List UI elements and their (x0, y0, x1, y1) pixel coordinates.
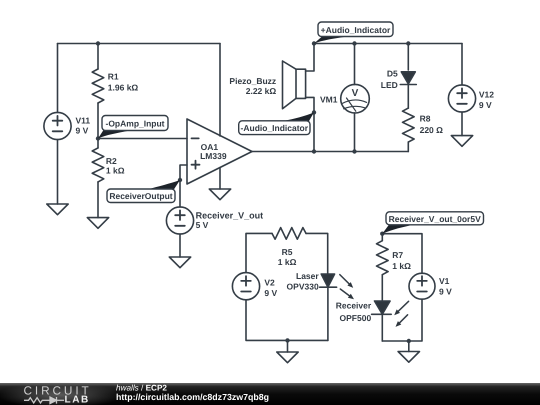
laser arrowhead 1 (347, 282, 353, 288)
resistor R2 (92, 148, 104, 182)
wire R7 to receiver diode (381, 275, 383, 301)
wire D5 to R8 (407, 85, 409, 109)
callout labels (98, 22, 484, 234)
laser emission arrows (340, 275, 350, 285)
wire V2 ground stub (287, 340, 289, 352)
wire V12 bottom (461, 112, 463, 136)
svg-text:D5: D5 (387, 69, 398, 79)
wire receiver diode bottom (381, 314, 383, 341)
node dot R1 top (96, 41, 100, 45)
speaker buzzer body (296, 69, 306, 98)
svg-text:LED: LED (381, 80, 398, 90)
op-amp OA1 LM339 (187, 119, 252, 184)
wire VM1 bottom (354, 113, 356, 152)
wire buzzer bottom terminal (306, 97, 314, 151)
svg-text:OPV330: OPV330 (287, 281, 319, 291)
node dot bus VM1 bottom (352, 149, 356, 153)
svg-text:V1: V1 (439, 276, 450, 286)
ground OA1 (209, 189, 230, 200)
wire buzzer top terminal (306, 44, 314, 72)
node dot buzzer bottom (312, 110, 316, 114)
wire R1 top stub (97, 44, 99, 70)
receiver arrowhead 1 (394, 309, 400, 315)
receiver arrowhead 2 (396, 321, 402, 327)
op-amp plus input glyph (192, 161, 200, 169)
wire OA1 output bus (252, 151, 408, 153)
wire D5 top stub (407, 44, 409, 71)
wire R7 top stub (381, 234, 383, 241)
svg-text:LM339: LM339 (200, 151, 227, 161)
wire R2 bottom stub (97, 182, 99, 218)
wire non-inverting input stub (180, 165, 187, 207)
svg-text:9 V: 9 V (76, 126, 89, 136)
svg-text:-Audio_Indicator: -Audio_Indicator (241, 123, 309, 133)
svg-text:+Audio_Indicator: +Audio_Indicator (321, 25, 391, 35)
laser arrowhead 2 (348, 294, 354, 299)
node dot V2 ground (285, 338, 289, 342)
svg-text:http://circuitlab.com/c8dz73zw: http://circuitlab.com/c8dz73zw7qb8g (116, 392, 269, 402)
svg-text:Laser: Laser (296, 271, 319, 281)
ground V12 (451, 136, 472, 147)
footer bar (0, 382, 540, 405)
voltage source V2 (232, 273, 259, 300)
wire R8 bottom stub (407, 142, 409, 151)
node dot VM1 top (352, 41, 356, 45)
diode D5 LED (401, 72, 415, 84)
resistor R8 (403, 108, 415, 142)
svg-text:V2: V2 (264, 277, 275, 287)
svg-text:Receiver_V_out_0or5V: Receiver_V_out_0or5V (389, 214, 481, 224)
wire laser bottom (327, 287, 329, 340)
wire below 5V source (179, 234, 181, 257)
wire receiver loop top (382, 234, 422, 274)
wire R2 top stub (97, 139, 99, 148)
callout ReceiverOutput (148, 180, 180, 189)
svg-text:9 V: 9 V (479, 100, 492, 110)
diode receiver OPF500 (375, 301, 391, 314)
wire VM1 top (354, 44, 356, 85)
svg-text:V12: V12 (479, 90, 494, 100)
svg-text:-OpAmp_Input: -OpAmp_Input (105, 119, 164, 129)
svg-text:5 V: 5 V (196, 220, 209, 230)
svg-text:2.22 kΩ: 2.22 kΩ (246, 86, 277, 96)
resistor R7 (377, 241, 389, 275)
wire OA1 V+ supply drop (219, 44, 221, 137)
ground R2 (87, 218, 108, 229)
node dot Receiver_V_out_0or5V (380, 232, 384, 236)
svg-text:ReceiverOutput: ReceiverOutput (109, 191, 172, 201)
svg-text:1.96 kΩ: 1.96 kΩ (108, 83, 139, 93)
wire R1 bottom stub (97, 103, 99, 139)
voltage source V1 (409, 273, 435, 299)
ground V2 loop (277, 352, 298, 363)
svg-text:Piezo_Buzz: Piezo_Buzz (229, 76, 276, 86)
resistor R1 (92, 69, 104, 103)
arrowheads for laser/receiver (347, 282, 401, 327)
diode laser OPV330 (321, 274, 334, 287)
speaker buzzer cone (283, 61, 297, 109)
logo resistor-diode squiggle (24, 398, 50, 403)
svg-text:9 V: 9 V (439, 286, 452, 296)
node dot ReceiverOutput (178, 178, 182, 182)
node dot D5 top (406, 41, 410, 45)
svg-text:1 kΩ: 1 kΩ (278, 257, 297, 267)
svg-text:V11: V11 (76, 116, 91, 126)
wire R5 to laser (306, 233, 328, 274)
svg-text:LAB: LAB (65, 394, 90, 405)
svg-text:VM1: VM1 (320, 95, 338, 105)
component text labels (76, 69, 495, 324)
svg-text:R2: R2 (106, 156, 117, 166)
node dot -OpAmp_Input (96, 136, 100, 140)
svg-text:1 kΩ: 1 kΩ (392, 261, 411, 271)
wire top bus left (V11 top to OA1 V+ drop) (58, 43, 221, 45)
svg-text:R7: R7 (392, 250, 403, 260)
node dot receiver ground (407, 339, 411, 343)
wire OA1 V- supply to ground (219, 168, 221, 190)
ground receiver loop (398, 352, 419, 363)
wire top bus right (314, 43, 462, 45)
svg-text:R8: R8 (420, 114, 431, 124)
svg-text:Receiver_V_out: Receiver_V_out (196, 211, 264, 221)
wire V11 bottom (57, 140, 59, 204)
wire V11 top (57, 44, 59, 113)
ground V11 (47, 204, 68, 215)
voltage source Receiver_V_out 5V (166, 207, 193, 234)
svg-text:R5: R5 (282, 247, 293, 257)
svg-text:V: V (352, 88, 359, 99)
svg-text:OPF500: OPF500 (340, 313, 372, 323)
node dot +Audio left (312, 41, 316, 45)
node dot bus buzzer bottom (312, 149, 316, 153)
op-amp minus input glyph (192, 137, 199, 139)
callout Receiver_V_out_0or5V (382, 225, 415, 234)
callout -OpAmp_Input (98, 129, 130, 138)
ground 5V source (169, 257, 190, 268)
voltage source V11 (44, 112, 71, 139)
wire V2 loop bottom (246, 300, 328, 340)
resistor R5 (272, 228, 306, 240)
svg-text:9 V: 9 V (264, 288, 277, 298)
voltage source V12 (448, 85, 475, 112)
wire V12 top (461, 44, 463, 85)
wire receiver ground stub (408, 341, 410, 352)
svg-text:1 kΩ: 1 kΩ (106, 166, 125, 176)
wire V1 bottom (382, 299, 422, 341)
voltmeter VM1 (341, 84, 370, 113)
svg-text:220 Ω: 220 Ω (420, 125, 444, 135)
wire inverting input (node to OA1) (98, 138, 187, 140)
wire V2 loop left/top (246, 233, 272, 272)
svg-text:R1: R1 (108, 71, 119, 81)
callout -Audio_Indicator (283, 112, 314, 121)
svg-text:Receiver: Receiver (336, 301, 372, 311)
callout +Audio_Indicator (314, 37, 348, 44)
receiver incoming arrows (397, 301, 408, 312)
